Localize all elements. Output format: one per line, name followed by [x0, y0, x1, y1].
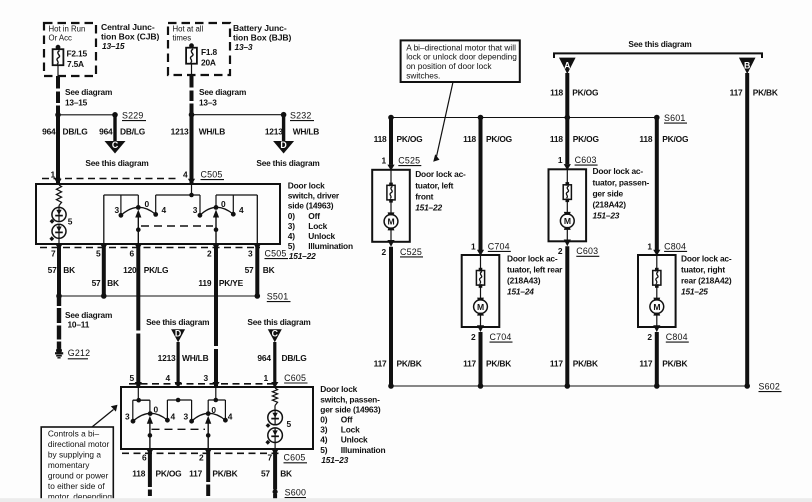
svg-text:3): 3) — [288, 221, 295, 231]
svg-text:57: 57 — [92, 278, 101, 288]
svg-text:2: 2 — [199, 453, 204, 463]
svg-text:Battery Junc-: Battery Junc- — [233, 23, 287, 33]
svg-text:1: 1 — [647, 241, 652, 251]
svg-text:S232: S232 — [290, 110, 312, 120]
svg-text:PK/OG: PK/OG — [486, 134, 512, 144]
svg-text:1213: 1213 — [265, 127, 283, 137]
svg-text:5: 5 — [96, 249, 101, 259]
svg-text:C525: C525 — [400, 247, 422, 257]
svg-text:4: 4 — [183, 170, 188, 180]
svg-text:PK/OG: PK/OG — [573, 134, 599, 144]
svg-text:DB/LG: DB/LG — [120, 127, 145, 137]
svg-text:See this diagram: See this diagram — [85, 158, 148, 168]
svg-text:ground or power: ground or power — [48, 470, 109, 480]
svg-text:Unlock: Unlock — [341, 435, 368, 445]
svg-text:Off: Off — [341, 415, 353, 425]
svg-text:WH/LB: WH/LB — [293, 127, 320, 137]
svg-text:A: A — [564, 60, 571, 70]
svg-text:117: 117 — [463, 359, 476, 369]
svg-text:S501: S501 — [267, 292, 289, 302]
svg-text:C603: C603 — [575, 155, 597, 165]
svg-text:BK: BK — [107, 278, 119, 288]
svg-text:M: M — [564, 216, 571, 226]
svg-text:to either side of: to either side of — [48, 481, 105, 491]
svg-text:times: times — [173, 34, 192, 43]
svg-text:DB/LG: DB/LG — [63, 127, 88, 137]
svg-text:151–23: 151–23 — [593, 211, 620, 221]
svg-text:Door lock: Door lock — [320, 384, 357, 394]
svg-text:F2.15: F2.15 — [67, 49, 88, 59]
svg-text:5: 5 — [130, 373, 135, 383]
svg-text:tuator, right: tuator, right — [681, 264, 725, 274]
svg-text:C804: C804 — [664, 241, 686, 251]
svg-text:C: C — [112, 140, 119, 150]
svg-text:1: 1 — [558, 155, 563, 165]
svg-text:7.5A: 7.5A — [67, 59, 84, 69]
svg-text:PK/LG: PK/LG — [144, 265, 169, 275]
svg-text:Door lock ac-: Door lock ac- — [415, 169, 466, 179]
svg-text:S601: S601 — [664, 113, 686, 123]
svg-text:7: 7 — [51, 249, 56, 259]
svg-text:C605: C605 — [284, 453, 306, 463]
svg-text:WH/LB: WH/LB — [199, 127, 226, 137]
svg-text:PK/OG: PK/OG — [156, 469, 182, 479]
svg-text:964: 964 — [42, 127, 56, 137]
svg-text:13–15: 13–15 — [102, 41, 125, 51]
svg-text:118: 118 — [374, 134, 387, 144]
svg-text:Lock: Lock — [341, 425, 360, 435]
svg-text:S600: S600 — [285, 488, 307, 498]
svg-text:See this diagram: See this diagram — [256, 158, 319, 168]
svg-text:side (14963): side (14963) — [288, 201, 334, 211]
svg-text:13–3: 13–3 — [199, 98, 217, 108]
svg-text:118: 118 — [639, 134, 652, 144]
svg-text:5: 5 — [68, 217, 73, 227]
svg-text:Door lock: Door lock — [288, 181, 325, 191]
svg-text:Or Acc: Or Acc — [49, 34, 72, 43]
svg-text:3): 3) — [320, 425, 327, 435]
svg-text:C525: C525 — [398, 156, 420, 166]
svg-text:117: 117 — [639, 359, 652, 369]
svg-text:13–3: 13–3 — [235, 42, 253, 52]
svg-text:151–24: 151–24 — [507, 287, 534, 297]
svg-text:PK/OG: PK/OG — [572, 88, 598, 98]
svg-text:0: 0 — [154, 405, 159, 415]
svg-text:WH/LB: WH/LB — [182, 353, 209, 363]
svg-text:57: 57 — [245, 265, 254, 275]
svg-text:G212: G212 — [68, 348, 91, 358]
svg-text:4): 4) — [320, 435, 327, 445]
svg-text:switch, passen-: switch, passen- — [320, 394, 380, 404]
svg-text:2: 2 — [647, 332, 652, 342]
svg-text:4: 4 — [162, 205, 167, 215]
svg-text:directional motor: directional motor — [48, 439, 110, 449]
svg-text:momentary: momentary — [48, 460, 90, 470]
svg-text:1: 1 — [264, 373, 269, 383]
svg-text:Illumination: Illumination — [341, 445, 386, 455]
svg-text:M: M — [477, 302, 484, 312]
svg-text:Illumination: Illumination — [308, 241, 353, 251]
svg-text:10–11: 10–11 — [68, 320, 90, 330]
svg-text:Lock: Lock — [308, 221, 327, 231]
svg-text:3: 3 — [125, 411, 130, 421]
svg-text:PK/OG: PK/OG — [397, 134, 423, 144]
svg-text:BK: BK — [263, 265, 275, 275]
svg-text:4: 4 — [171, 411, 176, 421]
svg-text:4): 4) — [288, 231, 295, 241]
svg-text:20A: 20A — [201, 58, 216, 68]
svg-text:5: 5 — [287, 419, 292, 429]
svg-text:ger side: ger side — [593, 188, 624, 198]
svg-text:PK/BK: PK/BK — [573, 359, 598, 369]
svg-text:tion Box (CJB): tion Box (CJB) — [101, 32, 160, 42]
svg-text:M: M — [653, 302, 660, 312]
svg-text:7: 7 — [268, 453, 273, 463]
svg-text:PK/OG: PK/OG — [662, 134, 688, 144]
svg-text:Off: Off — [308, 211, 320, 221]
svg-text:57: 57 — [261, 469, 270, 479]
svg-text:5): 5) — [320, 445, 327, 455]
svg-text:tuator, left rear: tuator, left rear — [507, 264, 563, 274]
svg-text:118: 118 — [132, 469, 145, 479]
svg-text:3: 3 — [248, 249, 253, 259]
svg-text:PK/BK: PK/BK — [753, 88, 778, 98]
svg-text:tuator, left: tuator, left — [415, 180, 453, 190]
svg-text:BK: BK — [280, 469, 292, 479]
svg-text:C505: C505 — [265, 249, 287, 259]
svg-text:C804: C804 — [666, 332, 688, 342]
svg-text:117: 117 — [730, 88, 743, 98]
svg-text:2: 2 — [558, 246, 563, 256]
svg-text:964: 964 — [99, 127, 113, 137]
svg-text:57: 57 — [48, 265, 57, 275]
svg-text:6: 6 — [142, 453, 147, 463]
svg-text:13–15: 13–15 — [65, 98, 88, 108]
svg-text:1213: 1213 — [158, 353, 176, 363]
svg-text:Door lock ac-: Door lock ac- — [593, 166, 644, 176]
svg-text:by supplying a: by supplying a — [48, 449, 101, 459]
svg-text:BK: BK — [63, 265, 75, 275]
svg-text:0: 0 — [145, 199, 150, 209]
svg-text:M: M — [388, 217, 395, 227]
svg-text:switch, driver: switch, driver — [288, 191, 340, 201]
svg-text:(218A42): (218A42) — [593, 200, 627, 210]
svg-text:Hot in Run: Hot in Run — [49, 25, 86, 34]
svg-text:S602: S602 — [759, 382, 781, 392]
svg-text:tuator, passen-: tuator, passen- — [593, 177, 650, 187]
svg-text:C704: C704 — [490, 332, 512, 342]
svg-text:Door lock ac-: Door lock ac- — [681, 253, 732, 263]
svg-text:Unlock: Unlock — [308, 231, 335, 241]
svg-text:964: 964 — [257, 353, 271, 363]
svg-text:2: 2 — [382, 247, 387, 257]
svg-text:C505: C505 — [201, 170, 223, 180]
svg-text:Hot at all: Hot at all — [173, 25, 204, 34]
svg-text:front: front — [415, 191, 433, 201]
svg-text:0): 0) — [320, 415, 327, 425]
svg-text:Central Junc-: Central Junc- — [101, 22, 155, 32]
svg-text:151–22: 151–22 — [289, 251, 316, 261]
svg-text:2: 2 — [207, 249, 212, 259]
svg-text:See this diagram: See this diagram — [146, 317, 209, 327]
svg-text:See this diagram: See this diagram — [247, 317, 310, 327]
svg-text:PK/BK: PK/BK — [397, 359, 422, 369]
svg-text:118: 118 — [550, 134, 563, 144]
svg-text:See diagram: See diagram — [65, 310, 112, 320]
svg-text:C605: C605 — [284, 373, 306, 383]
svg-text:1: 1 — [471, 241, 476, 251]
svg-text:151–25: 151–25 — [681, 287, 708, 297]
svg-text:D: D — [280, 140, 286, 150]
svg-text:(218A43): (218A43) — [507, 276, 541, 286]
svg-text:151–22: 151–22 — [415, 203, 442, 213]
svg-text:PK/BK: PK/BK — [662, 359, 687, 369]
svg-text:See diagram: See diagram — [199, 87, 246, 97]
svg-text:PK/BK: PK/BK — [212, 469, 237, 479]
svg-text:C: C — [272, 329, 279, 339]
svg-text:Door lock ac-: Door lock ac- — [507, 253, 558, 263]
svg-text:5): 5) — [288, 241, 295, 251]
svg-text:ger side (14963): ger side (14963) — [320, 404, 381, 414]
svg-text:151–23: 151–23 — [321, 455, 348, 465]
svg-text:0): 0) — [288, 211, 295, 221]
svg-text:PK/YE: PK/YE — [219, 278, 244, 288]
svg-text:118: 118 — [550, 88, 563, 98]
svg-text:119: 119 — [198, 278, 211, 288]
svg-text:6: 6 — [130, 249, 135, 259]
svg-text:2: 2 — [471, 332, 476, 342]
svg-text:B: B — [744, 60, 750, 70]
svg-text:3: 3 — [115, 205, 120, 215]
svg-text:rear (218A42): rear (218A42) — [681, 276, 732, 286]
svg-text:C704: C704 — [488, 241, 510, 251]
svg-text:tion Box (BJB): tion Box (BJB) — [233, 33, 292, 43]
svg-text:F1.8: F1.8 — [201, 47, 218, 57]
svg-text:DB/LG: DB/LG — [282, 353, 307, 363]
svg-text:4: 4 — [228, 411, 233, 421]
svg-text:4: 4 — [239, 205, 244, 215]
svg-text:3: 3 — [204, 373, 209, 383]
svg-text:1213: 1213 — [171, 127, 189, 137]
svg-text:117: 117 — [550, 359, 563, 369]
svg-text:switches.: switches. — [406, 71, 440, 81]
svg-text:Controls a bi–: Controls a bi– — [48, 428, 100, 438]
svg-text:120: 120 — [123, 265, 137, 275]
svg-text:D: D — [175, 329, 181, 339]
svg-text:3: 3 — [193, 205, 198, 215]
svg-text:1: 1 — [382, 156, 387, 166]
svg-text:PK/BK: PK/BK — [486, 359, 511, 369]
svg-text:4: 4 — [166, 373, 171, 383]
svg-text:118: 118 — [463, 134, 476, 144]
svg-text:See diagram: See diagram — [65, 87, 112, 97]
svg-text:3: 3 — [184, 411, 189, 421]
svg-text:S229: S229 — [122, 110, 144, 120]
svg-text:C603: C603 — [576, 246, 598, 256]
svg-text:117: 117 — [374, 359, 387, 369]
svg-text:See this diagram: See this diagram — [628, 39, 691, 49]
svg-text:117: 117 — [189, 469, 202, 479]
